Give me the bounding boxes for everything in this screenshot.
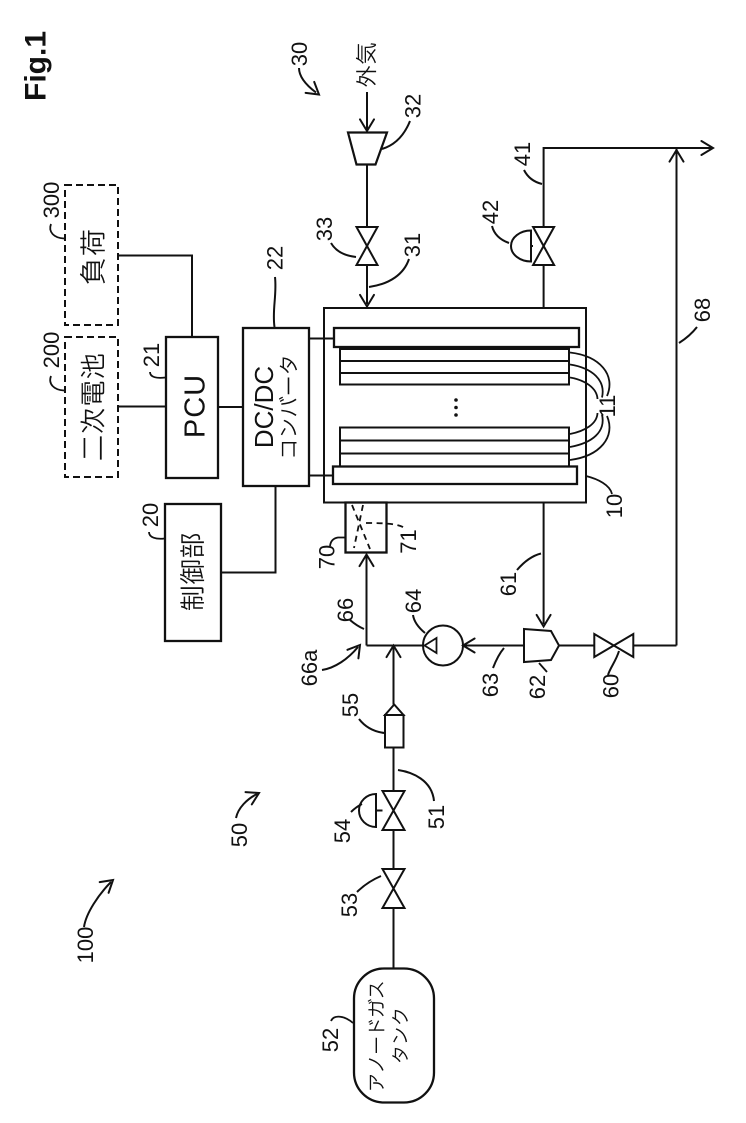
label 71 + dashed leader	[366, 523, 406, 529]
svg-text:63: 63	[478, 673, 503, 697]
svg-text:71: 71	[396, 529, 421, 553]
PCU box 21	[166, 337, 218, 478]
svg-text:DC/DC: DC/DC	[249, 366, 279, 448]
battery box 200 (二次電池)	[65, 337, 118, 477]
wire PCU to DC/DC	[218, 406, 243, 408]
svg-text:100: 100	[73, 927, 98, 964]
cell group 1 (cells 11)	[340, 349, 569, 385]
valve 51 with actuator 54	[383, 791, 405, 811]
wire compressor to valve 33	[366, 165, 368, 228]
svg-text:41: 41	[510, 142, 535, 166]
fuel-cell stack case 10	[324, 308, 586, 503]
wire valve 53 to valve 51	[393, 830, 395, 869]
svg-text:22: 22	[262, 246, 287, 270]
svg-text:68: 68	[690, 298, 715, 322]
svg-text:66a: 66a	[297, 649, 322, 686]
wire load to PCU	[118, 256, 192, 338]
svg-text:42: 42	[478, 200, 503, 224]
control unit box 20 (制御部)	[165, 504, 221, 641]
injector 70	[346, 503, 387, 553]
wire 61 stack to separator	[543, 503, 545, 625]
load box 300 (負荷)	[65, 185, 118, 325]
DC/DC converter box 22	[243, 328, 309, 486]
diaphragm actuator of valve 42	[531, 245, 533, 247]
wire control unit to DC/DC	[221, 486, 276, 573]
ellipsis dots	[454, 398, 458, 402]
svg-text:20: 20	[138, 503, 163, 527]
wire 66 vertical	[366, 556, 368, 646]
svg-text:52: 52	[318, 1028, 343, 1052]
wire valve 51 to filter 55	[393, 748, 395, 792]
svg-text:51: 51	[424, 805, 449, 829]
junction arrow from supply	[387, 646, 401, 658]
svg-text:61: 61	[496, 572, 521, 596]
wire 55 to junction 66a	[393, 647, 395, 705]
valve 33	[357, 227, 378, 246]
gas-liquid separator 62 (pentagon)	[524, 629, 559, 662]
outside-air label 外気	[356, 43, 376, 86]
svg-text:53: 53	[337, 893, 362, 917]
wire valve 33 to stack	[366, 265, 368, 304]
svg-text:11: 11	[595, 395, 620, 418]
end plate (top)	[334, 328, 579, 347]
svg-text:70: 70	[314, 545, 339, 569]
cell group 2 (cells 11)	[340, 428, 569, 467]
valve 53	[383, 869, 405, 889]
compressor 32 (funnel)	[348, 133, 387, 165]
svg-text:33: 33	[312, 217, 337, 241]
svg-text:62: 62	[525, 675, 550, 699]
svg-text:Fig.1: Fig.1	[20, 31, 53, 101]
wire stack to valve 42	[543, 266, 545, 309]
wire tank to valve 53	[393, 908, 395, 969]
wire battery to PCU	[118, 406, 166, 408]
end plate (bottom)	[333, 467, 577, 485]
svg-text:21: 21	[139, 343, 164, 367]
wire 68 vertical	[676, 148, 678, 646]
svg-text:32: 32	[400, 94, 425, 118]
wire bottom recirculation line	[634, 645, 677, 647]
valve 60	[594, 634, 614, 657]
svg-text:66: 66	[333, 598, 358, 622]
svg-text:60: 60	[598, 674, 623, 698]
leader curves to label 11	[570, 353, 609, 397]
svg-text:10: 10	[602, 494, 627, 518]
component 55	[385, 715, 404, 748]
svg-text:31: 31	[400, 233, 425, 257]
svg-text:50: 50	[227, 823, 252, 847]
anode gas tank 52	[354, 969, 434, 1103]
svg-text:PCU: PCU	[179, 374, 211, 438]
valve 42	[533, 227, 554, 246]
svg-text:55: 55	[338, 693, 363, 717]
wire air inlet line	[366, 92, 368, 129]
wire valve 42 up and right (pipe 41)	[544, 148, 711, 227]
svg-text:200: 200	[39, 332, 64, 369]
svg-text:64: 64	[401, 589, 426, 613]
svg-text:54: 54	[330, 819, 355, 843]
svg-text:30: 30	[287, 42, 312, 66]
svg-text:300: 300	[39, 182, 64, 219]
pump 64	[423, 626, 463, 666]
leader arrow for 30	[299, 68, 316, 93]
wire DC/DC to stack terminals	[309, 338, 334, 340]
